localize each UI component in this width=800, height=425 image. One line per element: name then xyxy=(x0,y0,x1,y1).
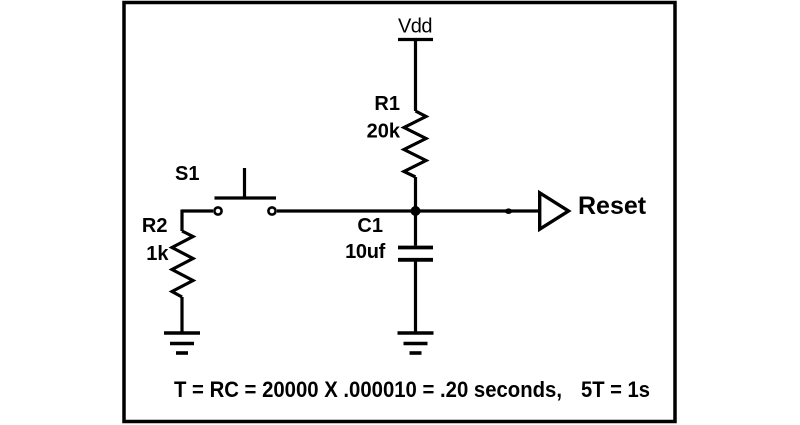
svg-text:C1: C1 xyxy=(357,215,383,237)
svg-text:20k: 20k xyxy=(367,121,401,143)
svg-text:S1: S1 xyxy=(175,163,199,185)
svg-text:T = RC = 20000 X .000010 = .20: T = RC = 20000 X .000010 = .20 seconds, xyxy=(174,377,562,402)
svg-text:10uf: 10uf xyxy=(345,241,386,263)
svg-text:1k: 1k xyxy=(146,243,169,265)
svg-text:5T = 1s: 5T = 1s xyxy=(581,377,650,402)
svg-text:Reset: Reset xyxy=(578,192,647,220)
svg-text:R2: R2 xyxy=(142,215,168,237)
svg-text:Vdd: Vdd xyxy=(398,16,432,38)
svg-text:R1: R1 xyxy=(374,93,400,115)
